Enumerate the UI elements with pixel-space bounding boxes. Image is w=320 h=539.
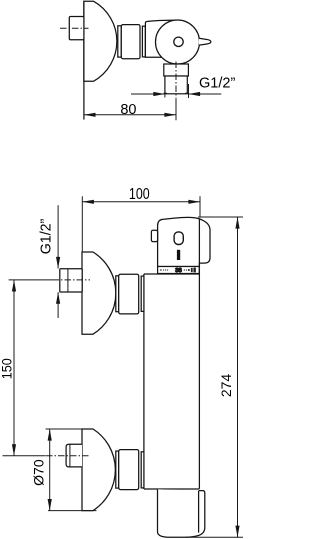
svg-text:100: 100: [129, 186, 150, 204]
svg-text:38: 38: [175, 268, 181, 274]
svg-text:274: 274: [218, 374, 234, 398]
svg-text:G1/2”: G1/2”: [199, 75, 235, 91]
svg-text:80: 80: [120, 102, 136, 118]
svg-text:150: 150: [0, 358, 15, 379]
svg-text:G1/2”: G1/2”: [38, 219, 54, 255]
svg-text:Ø70: Ø70: [31, 459, 47, 486]
